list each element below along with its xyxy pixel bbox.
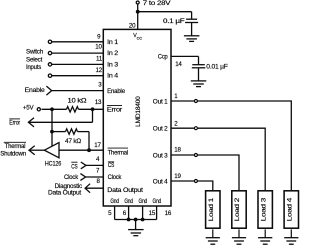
svg-text:Data Output: Data Output <box>107 187 143 194</box>
svg-text:Out 3: Out 3 <box>153 153 168 160</box>
svg-text:Out 4: Out 4 <box>153 179 168 186</box>
svg-text:6: 6 <box>123 210 127 217</box>
svg-text:Out 2: Out 2 <box>153 126 168 133</box>
svg-text:Error: Error <box>107 107 122 114</box>
svg-text:18: 18 <box>174 146 181 153</box>
svg-text:In 4: In 4 <box>107 73 119 80</box>
svg-text:LMD18400: LMD18400 <box>135 96 142 127</box>
svg-text:Clock: Clock <box>108 174 123 181</box>
svg-text:11: 11 <box>96 56 103 63</box>
svg-text:Enable: Enable <box>25 87 46 94</box>
svg-text:12: 12 <box>96 67 103 74</box>
svg-text:Load 1: Load 1 <box>208 197 215 221</box>
svg-text:Gnd: Gnd <box>139 198 148 205</box>
svg-text:Gnd: Gnd <box>153 198 162 205</box>
svg-text:0.1 µF: 0.1 µF <box>163 18 185 25</box>
svg-text:13: 13 <box>95 99 102 106</box>
svg-text:Thermal: Thermal <box>5 143 26 150</box>
svg-text:19: 19 <box>174 173 181 180</box>
svg-text:Clock: Clock <box>64 174 79 181</box>
svg-text:Load 2: Load 2 <box>234 197 241 221</box>
svg-text:In 3: In 3 <box>107 61 119 68</box>
svg-text:HC126: HC126 <box>45 161 62 168</box>
svg-text:10: 10 <box>95 43 102 50</box>
svg-text:2: 2 <box>174 120 178 127</box>
svg-text:20: 20 <box>129 22 136 29</box>
svg-text:5: 5 <box>108 210 112 217</box>
svg-text:Data Output: Data Output <box>48 190 82 197</box>
svg-text:Out 1: Out 1 <box>153 99 168 106</box>
svg-text:Enable: Enable <box>107 88 126 95</box>
svg-text:17: 17 <box>94 142 101 149</box>
svg-text:1: 1 <box>174 93 178 100</box>
svg-text:3: 3 <box>98 81 102 88</box>
svg-text:Load 3: Load 3 <box>260 197 267 221</box>
svg-text:CS: CS <box>108 162 114 169</box>
svg-text:Gnd: Gnd <box>124 198 133 205</box>
svg-text:47 kΩ: 47 kΩ <box>65 138 82 145</box>
svg-text:Gnd: Gnd <box>110 198 119 205</box>
svg-text:In 2: In 2 <box>107 50 119 57</box>
svg-text:Error: Error <box>9 119 20 126</box>
svg-text:+5V: +5V <box>23 104 35 111</box>
svg-text:Shutdown: Shutdown <box>0 150 27 157</box>
svg-text:Load 4: Load 4 <box>286 197 293 221</box>
svg-text:Switch: Switch <box>26 49 44 56</box>
svg-text:In 1: In 1 <box>107 39 119 46</box>
svg-text:9: 9 <box>97 33 101 40</box>
svg-text:0.01 µF: 0.01 µF <box>206 63 228 70</box>
svg-text:Select: Select <box>26 56 43 63</box>
svg-text:Inputs: Inputs <box>26 64 41 71</box>
svg-text:15: 15 <box>149 210 156 217</box>
svg-text:7: 7 <box>96 167 100 174</box>
svg-text:Ccp: Ccp <box>158 53 168 60</box>
svg-text:7 to 28V: 7 to 28V <box>143 0 172 7</box>
svg-text:4: 4 <box>96 156 100 163</box>
svg-text:14: 14 <box>175 61 182 68</box>
svg-text:10 kΩ: 10 kΩ <box>68 97 87 104</box>
svg-text:8: 8 <box>96 178 100 185</box>
svg-text:16: 16 <box>165 210 172 217</box>
svg-text:CS: CS <box>71 164 77 171</box>
svg-text:Thermal: Thermal <box>108 149 128 156</box>
